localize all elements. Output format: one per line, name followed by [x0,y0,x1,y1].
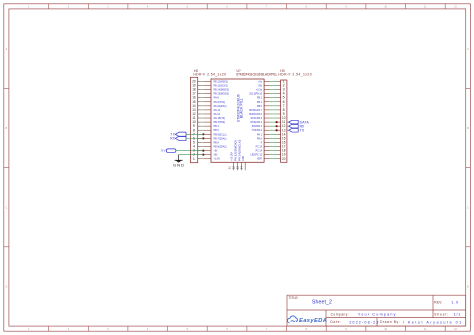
svg-text:Sheet:: Sheet: [434,312,448,316]
wire GND net [179,154,204,156]
svg-text:BLACK PILL: BLACK PILL [240,98,244,118]
U1 bottom pin stubs [234,162,246,170]
connector H3 pin numbers 1..20 [282,79,285,160]
svg-text:STM32F411CEU6 BLACKPILL: STM32F411CEU6 BLACKPILL [236,73,278,77]
net flag TX right [287,128,305,132]
svg-text:VBAT: VBAT [257,157,262,161]
svg-text:Your Company: Your Company [358,313,396,317]
title block frame [287,295,466,326]
U1 right pin names [249,79,262,160]
connector H2 pin numbers 20..1 [192,79,195,160]
svg-text:2022-08-23: 2022-08-23 [349,320,378,324]
junction dots right [276,121,278,131]
svg-text:TX: TX [300,128,305,132]
svg-text:5V: 5V [161,149,165,153]
U1 left pin stubs [203,81,211,158]
svg-text:GND: GND [173,162,184,167]
svg-text:GND: GND [241,155,245,161]
svg-text:HDR-F 2.54_1x20: HDR-F 2.54_1x20 [193,73,226,77]
net flag DATA right [287,120,310,124]
module U1 STM32F411 blackpill body [211,79,264,162]
net flag RX right [287,124,305,128]
net flag RX left [170,136,203,140]
svg-text:REV:: REV: [434,300,442,304]
wires U1 to H3 [270,81,278,158]
svg-text:20: 20 [282,157,285,161]
wires H2 to U1 [201,81,204,158]
net flag TX left [170,132,203,136]
svg-text:HDR-F 2.54_1x20: HDR-F 2.54_1x20 [278,73,311,77]
power flag +5V [161,149,203,153]
svg-text:Drawn By:: Drawn By: [380,320,400,324]
connector H2 pins [198,81,201,158]
connector H3 pins [277,81,280,158]
junction dots left [202,133,204,156]
svg-text:TITLE:: TITLE: [289,296,299,300]
svg-text:EasyEDA: EasyEDA [299,318,327,324]
svg-text:1.0: 1.0 [451,301,458,305]
svg-text:1: 1 [193,157,195,161]
svg-text:+3.3V: +3.3V [214,157,221,161]
connector H3 body [281,80,287,162]
connector H2 body [190,77,197,162]
U1 bottom pin numbers [228,166,244,170]
ground symbol [173,155,184,168]
U1 bottom pin names [230,140,246,161]
svg-text:Date:: Date: [330,320,341,324]
svg-text:Company:: Company: [331,312,349,316]
svg-text:Sheet_2: Sheet_2 [312,300,332,306]
U1 left pin names [214,79,229,160]
EasyEDA logo [287,316,326,324]
svg-text:1/1: 1/1 [454,313,461,317]
U1 right pin stubs [264,81,270,158]
